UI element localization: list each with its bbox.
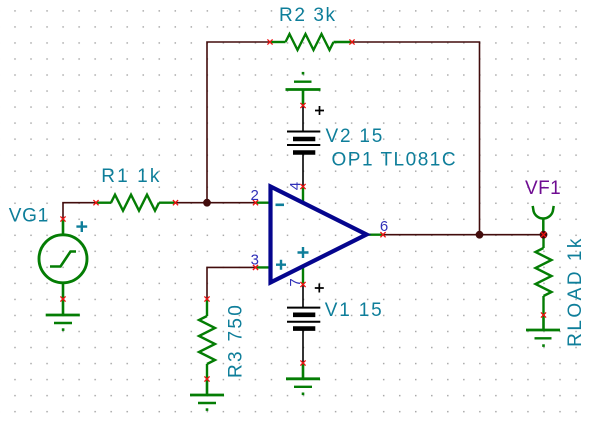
svg-text:4: 4: [287, 182, 304, 190]
wire V2 top to ground: [302, 106, 304, 132]
plus sign V1 (black): [315, 284, 324, 293]
node C junction dot: [540, 231, 548, 239]
svg-text:V2 15: V2 15: [326, 126, 385, 147]
plus sign VG1 (teal): [76, 221, 87, 232]
terminal x: R3 top: [204, 296, 209, 301]
resistor R2: [270, 34, 352, 50]
wire feedback left: node A up to R2: [207, 42, 270, 203]
terminal x: V2 + terminal: [300, 103, 305, 108]
svg-text:VG1: VG1: [9, 206, 49, 227]
op-amp U1 triangle: [271, 187, 367, 283]
resistor R1: [96, 195, 176, 211]
terminal x: VG1 - terminal: [60, 296, 65, 301]
terminal x: R1 left: [93, 200, 98, 205]
terminal x: VG1 + terminal: [60, 216, 65, 221]
pin 2 lead: [256, 201, 273, 203]
terminal x: R3 bottom: [204, 376, 209, 381]
terminal x: V1 - terminal: [300, 360, 305, 365]
svg-text:V1 15: V1 15: [325, 300, 384, 321]
ground at VG1: [46, 299, 80, 330]
terminal x: R1 right: [173, 200, 178, 205]
wire feedback right: R2 to output node B: [352, 42, 480, 235]
plus sign op-amp centre (teal): [298, 247, 309, 258]
battery V1: [287, 308, 320, 329]
wire R1 to node A and op-amp pin2: [176, 202, 256, 204]
svg-text:VF1: VF1: [525, 178, 561, 199]
wire op-amp pin3 to R3: [207, 267, 256, 299]
wire pin7 to V1 top: [302, 285, 304, 308]
wire VG1 to R1: [63, 203, 96, 219]
svg-text:3: 3: [251, 251, 259, 268]
terminal x: R2 right: [349, 39, 354, 44]
terminal x: op-amp pin 4: [300, 184, 305, 189]
minus sign pin2 (teal): [276, 204, 285, 207]
plus sign pin3 (teal): [276, 260, 286, 270]
voltage generator VG1: [39, 219, 87, 299]
terminal x: R2 left: [267, 39, 272, 44]
battery V2: [287, 132, 320, 153]
terminal x: RLOAD bottom: [541, 312, 546, 317]
ground at RLOAD: [526, 315, 560, 346]
svg-text:R3 750: R3 750: [226, 303, 247, 378]
node A junction dot: [203, 199, 211, 207]
plus sign V2 (black): [315, 106, 324, 115]
pin 4 lead: [302, 187, 304, 204]
ground at V1: [286, 363, 320, 394]
pin 7 lead: [302, 266, 304, 285]
op-amp pin leads: [256, 187, 384, 285]
svg-text:7: 7: [287, 278, 304, 286]
svg-text:2: 2: [251, 187, 259, 204]
wire V1 bottom to ground: [302, 329, 304, 363]
terminal x: RLOAD top: [541, 232, 546, 237]
wire V2 bottom to pin4: [302, 153, 304, 187]
svg-text:6: 6: [380, 218, 388, 235]
ground at R3: [190, 379, 224, 410]
terminal x: op-amp pin 3: [253, 265, 258, 270]
terminal x: op-amp pin 2: [253, 200, 258, 205]
terminal x: op-amp pin 6: [380, 232, 385, 237]
node B junction dot: [476, 231, 484, 239]
resistor RLOAD: [536, 235, 552, 315]
pin 3 lead: [256, 266, 273, 268]
terminal x: op-amp pin 7: [300, 282, 305, 287]
svg-text:OP1 TL081C: OP1 TL081C: [332, 149, 458, 170]
svg-text:R2 3k: R2 3k: [279, 5, 337, 26]
pin 6 lead: [367, 233, 384, 235]
voltage pin probe VF1: [533, 206, 554, 235]
svg-text:RLOAD 1k: RLOAD 1k: [565, 236, 586, 347]
svg-text:R1 1k: R1 1k: [101, 166, 161, 187]
wire output pin6 to RLOAD node C: [383, 234, 544, 236]
ground at V2 top (inverted): [286, 73, 321, 105]
resistor R3: [199, 299, 215, 379]
